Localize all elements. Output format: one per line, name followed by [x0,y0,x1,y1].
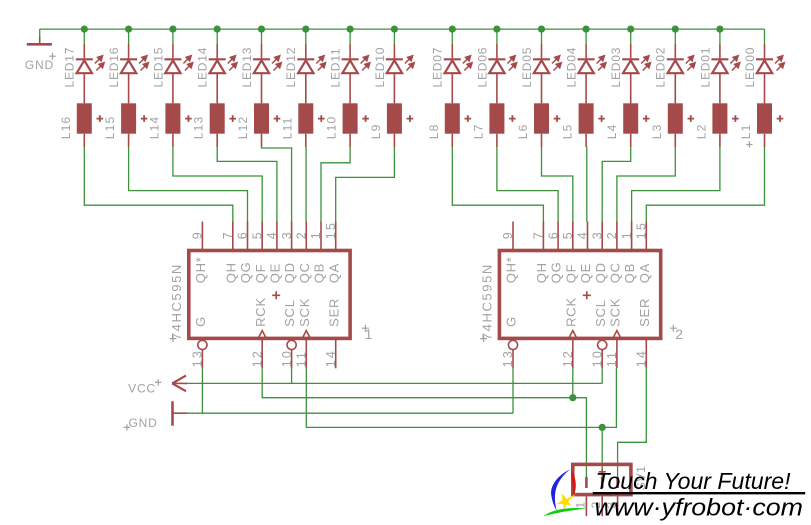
svg-text:L3: L3 [650,123,664,139]
LED LED06 [475,44,516,87]
wire L13 to IC pin at x=276.9 [217,147,277,222]
wire LED17 anode to L16 [83,73,85,103]
svg-text:QB: QB [312,263,327,283]
wire L8 lead [451,134,453,147]
svg-text:L10: L10 [325,116,339,140]
LED LED10 [373,44,414,87]
U1 pin 11 (SCK) [295,298,312,369]
logo yfrobot swoosh [543,469,586,516]
LED LED04 [565,44,606,87]
U1 pin 7 (QH) [221,222,238,284]
wire L12 to IC pin at x=291.6 [262,147,292,222]
svg-text:SCL: SCL [593,299,608,327]
svg-text:G: G [193,316,208,327]
wire L1 to IC pin at x=646.3 [646,147,764,222]
svg-text:QB: QB [622,263,637,283]
U1 pin 9 (QH*) [191,222,208,284]
U2 pin 4 (QE) [576,222,593,284]
svg-text:LED13: LED13 [240,47,254,88]
supply VCC arrow symbol [128,376,188,396]
LED LED00 [743,44,784,87]
wire L13 lead [216,134,218,147]
svg-text:LED00: LED00 [743,47,757,88]
wire L12 lead [261,134,263,147]
wire LED16 anode to L15 [128,73,130,103]
wire L14 to IC pin at x=262.2 [173,147,262,222]
wire rail to LED05 cathode [541,29,543,45]
svg-text:LED14: LED14 [196,47,210,88]
resistor L2 [694,103,738,139]
svg-text:4: 4 [576,230,590,239]
svg-text:QH*: QH* [504,256,519,283]
svg-text:QA: QA [326,263,341,283]
wire rail to LED12 cathode [305,29,307,45]
origin cross U1 [272,291,280,299]
svg-text:LED11: LED11 [329,48,343,88]
svg-text:SCK: SCK [297,298,312,327]
wire GND top rail [40,28,765,30]
resistor L8 [427,103,471,139]
svg-text:L15: L15 [103,116,117,140]
svg-text:LED04: LED04 [565,47,579,88]
svg-text:QF: QF [253,264,268,284]
U1 pin 2 (QC) [295,222,312,284]
svg-text:11: 11 [605,350,619,367]
svg-text:L14: L14 [147,116,161,140]
wire LED02 anode to L3 [674,73,676,103]
IC U2 74HC595N body [499,251,660,339]
U2 pin 6 (QG) [546,222,563,284]
svg-text:L12: L12 [236,116,250,140]
LED LED13 [240,44,281,87]
LED LED02 [654,44,695,87]
wire L3 lead [674,134,676,147]
U1 pin 1 (QB) [309,222,326,284]
svg-text:15: 15 [635,221,649,239]
wire L1 lead [764,134,766,147]
wire L7 to IC pin at x=558.1 [497,147,558,222]
U1 pin 4 (QE) [265,222,282,284]
wire U1 pin13 to GND [201,368,203,413]
junction rail-LED10 [391,26,398,33]
svg-text:QH*: QH* [193,256,208,283]
connector SV1 pin 2 [589,477,603,516]
svg-text:QC: QC [608,262,623,283]
wire L11 lead [305,134,307,147]
LED LED16 [107,44,148,87]
svg-text:6: 6 [236,230,250,239]
U1 pin 3 (QD) [280,222,297,284]
svg-text:SCL: SCL [282,299,297,327]
resistor L1 [739,103,783,139]
wire rail to LED10 cathode [393,29,395,45]
svg-text:11: 11 [295,350,309,367]
junction rail-LED15 [169,26,176,33]
junction rail-LED07 [449,26,456,33]
wire LED07 anode to L8 [451,73,453,103]
svg-text:QE: QE [268,263,283,283]
svg-text:LED03: LED03 [609,47,623,88]
wire L3 to IC pin at x=616.9 [617,147,675,222]
wire rail to LED02 cathode [674,29,676,45]
U2 pin 5 (QF) [561,222,578,284]
wire LED12 anode to L11 [305,73,307,103]
LED LED12 [284,44,325,87]
resistor L5 [561,103,605,139]
U1 pin 6 (QG) [236,222,253,284]
svg-text:RCK: RCK [563,297,578,327]
junction rail-LED11 [347,26,354,33]
svg-text:GND: GND [25,58,54,72]
svg-text:G: G [504,316,519,327]
svg-text:QD: QD [593,262,608,283]
svg-text:QH: QH [534,262,549,283]
svg-text:LED10: LED10 [373,47,387,88]
svg-text:QH: QH [223,262,238,283]
svg-text:1: 1 [620,230,634,239]
wire L15 to IC pin at x=247.5 [129,147,248,222]
wire rail to LED06 cathode [496,29,498,45]
junction rail-LED02 [672,26,679,33]
U1 pin 12 (RCK) [250,297,267,368]
svg-text:12: 12 [561,349,575,367]
wire rail to LED13 cathode [261,29,263,45]
svg-text:LED07: LED07 [431,47,445,88]
svg-text:QE: QE [578,263,593,283]
svg-text:13: 13 [191,349,205,367]
wire L6 lead [541,134,543,147]
resistor L4 [605,103,649,139]
wire LED01 anode to L2 [719,73,721,103]
resistor L9 [369,103,413,139]
wire L5 lead [585,134,587,147]
wire L11 to IC pin at x=306.3 [305,147,307,222]
U2 pin 1 (QB) [620,222,637,284]
svg-text:QC: QC [297,262,312,283]
wire U2 pin13 to GND [512,368,514,413]
svg-text:L7: L7 [471,123,485,139]
svg-text:15: 15 [324,221,338,239]
connector SV1 pin 1 [573,477,587,516]
wire L2 lead [719,134,721,147]
wire rail to LED11 cathode [349,29,351,45]
svg-text:LED02: LED02 [654,47,668,88]
svg-text:13: 13 [501,349,515,367]
LED LED15 [151,44,192,87]
svg-text:SER: SER [637,298,652,327]
svg-text:2: 2 [605,230,619,239]
svg-text:14: 14 [635,349,649,367]
junction rail-LED14 [214,26,221,33]
origin cross of L1 label [746,141,752,147]
svg-text:L16: L16 [59,116,73,140]
wire L16 lead [83,134,85,147]
LED LED14 [196,44,237,87]
IC U1 74HC595N body [189,251,350,339]
junction rail-LED17 [81,26,88,33]
wire U2 pin10 to VCC [601,368,603,383]
U2 pin 9 (QH*) [501,222,518,284]
svg-text:10: 10 [590,349,604,367]
svg-text:SCK: SCK [608,298,623,327]
resistor L13 [192,103,236,139]
junction rail-LED01 [716,26,723,33]
wire L9 lead [393,134,395,147]
wire L7 lead [496,134,498,147]
connector SV1 pin 3 [605,477,619,516]
svg-text:VCC: VCC [128,381,156,395]
connector SV1 body [573,464,631,494]
wire LED13 anode to L12 [261,73,263,103]
resistor L6 [516,103,560,139]
junction rail-LED12 [302,26,309,33]
wire LED05 anode to L6 [541,73,543,103]
wire net VCC horizontal [188,382,602,384]
wire rail to LED04 cathode [585,29,587,45]
wire L10 lead [349,134,351,147]
svg-text:12: 12 [250,349,264,367]
U2 pin 3 (QD) [590,222,607,284]
resistor L16 [59,103,103,139]
svg-text:5: 5 [250,230,264,239]
U1 pin 14 (SER) [324,298,341,369]
svg-text:2: 2 [295,230,309,239]
svg-text:L11: L11 [280,116,294,139]
wire L16 to IC pin at x=232.8 [84,147,233,222]
junction RCK net at U2 pin12 [569,394,576,401]
wire L10 to IC pin at x=321.0 [321,147,350,222]
wire L9 to IC pin at x=335.7 [336,147,395,222]
svg-text:1: 1 [573,501,587,508]
wire LED00 anode to L1 [764,73,766,103]
svg-text:QG: QG [238,261,253,283]
LED LED03 [609,44,650,87]
wire LED04 anode to L5 [585,73,587,103]
wire L2 to IC pin at x=631.6 [632,147,720,222]
resistor L12 [236,103,280,139]
U2 pin 15 (QA) [635,221,652,283]
svg-text:L13: L13 [192,116,206,140]
wire L4 to IC pin at x=602.2 [602,147,631,222]
svg-text:RCK: RCK [253,297,268,327]
LED LED17 [63,44,104,87]
U2 pin 7 (QH) [532,222,549,284]
ground GND bottom symbol [124,401,188,430]
svg-text:LED06: LED06 [475,47,489,88]
wire LED15 anode to L14 [172,73,174,103]
U2 pin 14 (SER) [635,298,652,369]
junction rail-LED16 [125,26,132,33]
wire LED10 anode to L9 [393,73,395,103]
junction SCK net at drop [599,424,606,431]
wire L14 lead [172,134,174,147]
origin cross SV1 [599,468,606,475]
svg-text:QA: QA [637,263,652,283]
junction rail-LED05 [538,26,545,33]
svg-text:QD: QD [282,262,297,283]
svg-text:14: 14 [324,349,338,367]
wire net GND horizontal [188,412,513,414]
wire L8 to IC pin at x=543.4 [452,147,543,222]
svg-text:L2: L2 [694,123,708,139]
svg-text:L6: L6 [516,123,530,139]
svg-text:SER: SER [326,298,341,327]
svg-text:10: 10 [280,349,294,367]
svg-text:LED12: LED12 [284,47,298,88]
wire rail to LED15 cathode [172,29,174,45]
ground GND top-left [25,29,56,72]
resistor L15 [103,103,147,139]
U2 pin 10 (SCL) [590,299,607,368]
wire net SER: U2 pin14 to SV1 pin3 [618,368,647,478]
U1 pin 15 (QA) [324,221,341,283]
junction rail-LED13 [258,26,265,33]
U1 pin 13 (G) [191,316,208,368]
wire net SCK: U1 pin11 to U2 pin11 to SV1 pin2 [306,368,616,427]
svg-text:1: 1 [309,230,323,239]
svg-text:9: 9 [191,230,205,239]
U2 pin 12 (RCK) [561,297,578,368]
svg-text:L9: L9 [369,123,383,139]
wire LED11 anode to L10 [349,73,351,103]
svg-text:www·yfrobot·com: www·yfrobot·com [595,494,804,521]
junction rail-LED04 [583,26,590,33]
svg-text:7: 7 [221,230,235,239]
svg-text:4: 4 [265,230,279,239]
LED LED01 [698,44,739,87]
U2 pin 13 (G) [501,316,518,368]
resistor L7 [471,103,515,139]
svg-text:LED01: LED01 [698,47,712,88]
wire L6 to IC pin at x=572.8 [542,147,573,222]
resistor L11 [280,103,324,139]
svg-text:QG: QG [549,261,564,283]
LED LED05 [520,44,561,87]
wire rail to LED01 cathode [719,29,721,45]
wire L4 lead [630,134,632,147]
wire net RCK: U1 pin12 to U2 pin12 to SV1 pin1 [262,368,586,478]
svg-text:9: 9 [501,230,515,239]
wire L15 lead [128,134,130,147]
svg-text:LED16: LED16 [107,47,121,88]
junction rail-LED06 [493,26,500,33]
svg-text:L1: L1 [739,123,753,139]
svg-text:L5: L5 [561,123,575,139]
U1 pin 10 (SCL) [280,299,297,368]
U1 pin 5 (QF) [250,222,267,284]
svg-text:QF: QF [563,264,578,284]
wire U2 pin12 drop [572,368,574,397]
wire rail to LED16 cathode [128,29,130,45]
svg-text:3: 3 [280,230,294,239]
LED LED07 [431,44,472,87]
svg-text:7: 7 [532,230,546,239]
U2 pin 2 (QC) [605,222,622,284]
wire L5 to IC pin at x=587.5 [586,147,588,222]
wire LED03 anode to L4 [630,73,632,103]
wire SCK drop to SV1 pin2 [601,427,603,478]
wire rail to LED17 cathode [83,29,85,45]
resistor L3 [650,103,694,139]
wire LED14 anode to L13 [216,73,218,103]
wire LED06 anode to L7 [496,73,498,103]
origin cross U2 [583,291,591,299]
svg-text:74HC595N: 74HC595N [169,263,184,340]
LED LED11 [329,44,370,87]
svg-text:LED15: LED15 [151,47,165,88]
wire U1 pin10 to VCC [291,368,293,383]
wire rail to LED07 cathode [451,29,453,45]
junction rail-LED03 [627,26,634,33]
wire rail to LED00 cathode [764,29,766,45]
underline [593,492,805,494]
svg-text:LED05: LED05 [520,47,534,88]
resistor L10 [325,103,369,139]
wire rail to LED03 cathode [630,29,632,45]
svg-text:L4: L4 [605,123,619,139]
svg-text:74HC595N: 74HC595N [480,263,495,340]
svg-text:LED17: LED17 [63,47,77,88]
resistor L14 [147,103,191,139]
svg-text:Touch Your Future!: Touch Your Future! [596,468,792,494]
svg-text:6: 6 [546,230,560,239]
wire rail to LED14 cathode [216,29,218,45]
svg-text:5: 5 [561,230,575,239]
svg-text:L8: L8 [427,123,441,139]
U2 pin 11 (SCK) [605,298,622,369]
svg-text:3: 3 [590,230,604,239]
svg-text:GND: GND [129,416,158,430]
